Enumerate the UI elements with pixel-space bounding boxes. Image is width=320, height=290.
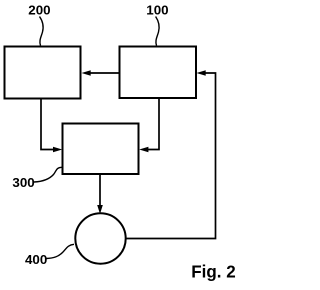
leader 300 [34, 167, 62, 182]
leader 400 [46, 244, 74, 258]
feedback wire circle 400 to 100 [126, 73, 216, 239]
leader 200 [40, 17, 44, 46]
circle 400 [75, 213, 125, 263]
svg-text:300: 300 [12, 176, 34, 190]
wire 200 bottom to 300 left [41, 99, 54, 150]
wire 100 bottom to 300 right [148, 98, 160, 150]
block 100 [120, 47, 197, 99]
wire 300 bottom to circle 400 [99, 175, 101, 207]
block 200 [5, 47, 81, 99]
block 300 [63, 124, 139, 175]
svg-text:400: 400 [25, 253, 47, 267]
svg-text:200: 200 [28, 4, 50, 18]
wire arrow 100 to 200 [90, 72, 120, 74]
leader 100 [156, 17, 159, 46]
svg-text:100: 100 [146, 4, 168, 18]
svg-text:Fig. 2: Fig. 2 [191, 262, 236, 282]
